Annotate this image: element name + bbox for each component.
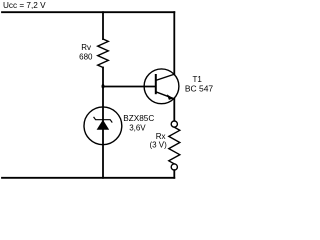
svg-text:Ucc = 7,2 V: Ucc = 7,2 V [3,1,46,10]
svg-text:Rv: Rv [81,43,91,52]
wire bottom rail [2,177,174,179]
wire emitter vertical to Rx [173,99,175,121]
svg-text:(3 V): (3 V) [149,141,167,150]
wire left vertical from top rail to Rv [102,12,104,39]
svg-text:BZX85C: BZX85C [123,114,154,123]
transistor Q T1 circle [144,69,179,104]
transistor emitter arrowhead [167,94,174,100]
transistor collector line [156,74,175,80]
resistor Rv [98,39,109,68]
transistor emitter line [156,92,175,99]
wire Rx bottom to rail [173,170,175,178]
terminal circle Rx bottom [171,164,177,170]
junction base tap [102,84,105,88]
wire right vertical collector branch [173,12,175,74]
wire base wire [103,86,155,88]
svg-text:BC 547: BC 547 [185,83,214,93]
wire top rail [2,11,174,13]
terminal circle Rx top [171,121,177,127]
transistor base bar [155,75,157,93]
wire left vertical through zener to bottom rail [102,68,104,178]
zener diode cathode bar [94,117,112,122]
zener diode triangle [97,120,110,130]
svg-text:3,6V: 3,6V [129,123,146,132]
svg-text:680: 680 [79,52,93,61]
zener diode D1 circle [84,107,122,145]
resistor Rx [169,127,180,164]
